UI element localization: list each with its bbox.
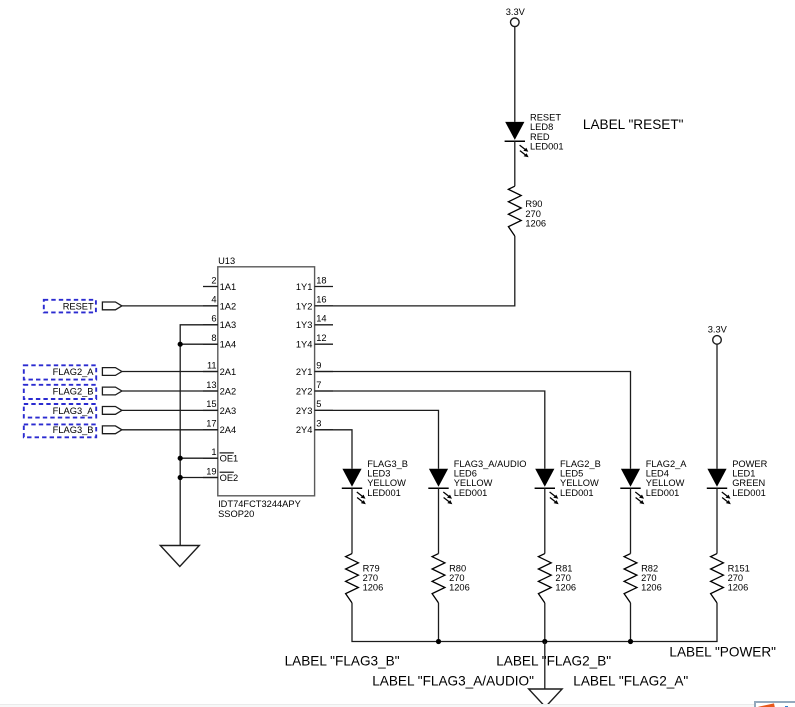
svg-text:270: 270 — [555, 573, 571, 583]
wire — [315, 236, 515, 306]
svg-text:LABEL "RESET": LABEL "RESET" — [583, 117, 684, 132]
svg-text:13: 13 — [206, 380, 216, 390]
wire — [180, 343, 218, 345]
svg-text:R82: R82 — [641, 563, 658, 573]
svg-text:LABEL "FLAG3_B": LABEL "FLAG3_B" — [285, 654, 400, 669]
svg-text:LED001: LED001 — [454, 488, 488, 498]
svg-text:2A4: 2A4 — [220, 425, 237, 435]
wire net 1A3/1A4/OE1/OE2 to ground — [180, 325, 218, 546]
U13 pin 16 (1Y2) — [296, 295, 333, 312]
svg-text:1206: 1206 — [555, 583, 576, 593]
svg-text:FLAG3_A: FLAG3_A — [53, 406, 95, 416]
svg-text:1A1: 1A1 — [220, 282, 237, 292]
junction at 1A4 — [178, 342, 183, 347]
svg-text:11: 11 — [207, 360, 217, 370]
svg-text:270: 270 — [728, 573, 744, 583]
resistor R82 — [624, 554, 637, 603]
svg-text:R79: R79 — [363, 563, 380, 573]
U13 pin 6 (1A3) — [203, 314, 236, 331]
wire — [544, 488, 546, 553]
wire to ground — [544, 642, 546, 690]
svg-text:1206: 1206 — [728, 583, 749, 593]
svg-text:R90: R90 — [525, 199, 542, 209]
svg-text:YELLOW: YELLOW — [646, 478, 685, 488]
svg-text:1206: 1206 — [641, 583, 662, 593]
svg-text:R151: R151 — [728, 563, 750, 573]
svg-text:4: 4 — [211, 295, 216, 305]
wire — [630, 488, 632, 553]
value label R81 value 270 1206 — [555, 563, 576, 592]
svg-text:2: 2 — [211, 275, 216, 285]
svg-text:LED001: LED001 — [530, 141, 564, 151]
svg-text:14: 14 — [316, 314, 326, 324]
value label R151 value 270 1206 — [728, 563, 750, 592]
svg-text:U13: U13 — [218, 256, 235, 266]
svg-text:1Y2: 1Y2 — [296, 301, 313, 311]
svg-text:19: 19 — [206, 466, 216, 476]
junction bus at R81 — [542, 639, 547, 644]
svg-text:RED: RED — [530, 132, 550, 142]
svg-text:R81: R81 — [555, 563, 572, 573]
value label LED5 designator — [560, 459, 601, 498]
LED LED8 (RESET, RED) — [505, 122, 529, 157]
power 3.3V P2 3.3V — [708, 325, 728, 345]
svg-text:LED8: LED8 — [530, 122, 553, 132]
U13 pin 15 (2A3) — [203, 399, 236, 416]
wire — [315, 372, 631, 469]
svg-text:LABEL "POWER": LABEL "POWER" — [669, 645, 776, 660]
svg-text:RESET: RESET — [530, 113, 561, 123]
U13 pin 19 (OE2) — [203, 466, 238, 483]
svg-text:1A2: 1A2 — [220, 301, 237, 311]
value label LED3 designator — [367, 459, 408, 498]
resistor R151 — [711, 554, 724, 603]
svg-text:FLAG3_A/AUDIO: FLAG3_A/AUDIO — [454, 459, 527, 469]
wire — [315, 410, 439, 468]
U13 pin 4 (1A2) — [203, 295, 236, 312]
wire — [514, 141, 516, 186]
svg-text:6: 6 — [211, 314, 216, 324]
wire — [180, 457, 218, 459]
svg-text:IDT74FCT3244APY: IDT74FCT3244APY — [218, 499, 301, 509]
value label R79 value 270 1206 — [363, 563, 384, 592]
U13 pin 11 (2A1) — [203, 360, 236, 377]
wire — [544, 603, 546, 642]
svg-text:270: 270 — [525, 209, 541, 219]
svg-text:8: 8 — [211, 333, 216, 343]
svg-text:LED4: LED4 — [646, 469, 669, 479]
svg-text:17: 17 — [206, 419, 216, 429]
svg-text:FLAG2_A: FLAG2_A — [646, 459, 688, 469]
svg-text:1Y1: 1Y1 — [296, 282, 313, 292]
LED LED5 (FLAG2_B, YELLOW) — [535, 469, 559, 504]
U13 pin 7 (2Y2) — [296, 380, 333, 397]
wire — [315, 430, 352, 469]
value label LED6 designator — [454, 459, 527, 498]
U13 pin 1 (OE1) — [203, 447, 238, 464]
value label LED1 designator — [732, 459, 767, 498]
svg-text:POWER: POWER — [732, 459, 767, 469]
wire — [514, 27, 516, 122]
wire — [351, 488, 353, 553]
svg-text:R80: R80 — [449, 563, 466, 573]
U13 pin 5 (2Y3) — [296, 399, 333, 416]
svg-text:5: 5 — [316, 399, 321, 409]
wire — [180, 477, 218, 479]
svg-text:3.3V: 3.3V — [708, 325, 728, 335]
svg-text:2Y2: 2Y2 — [296, 386, 313, 396]
value label R82 value 270 1206 — [641, 563, 662, 592]
svg-text:1Y4: 1Y4 — [296, 340, 313, 350]
U13 pin 13 (2A2) — [203, 380, 236, 397]
svg-text:FLAG3_B: FLAG3_B — [53, 425, 94, 435]
svg-text:270: 270 — [641, 573, 657, 583]
U13 pin 17 (2A4) — [203, 419, 236, 436]
wire ground bus — [352, 603, 717, 642]
value label LED4 designator — [646, 459, 688, 498]
resistor R81 — [538, 554, 551, 603]
value label R90 value 270 1206 — [525, 199, 546, 228]
wire — [315, 391, 545, 469]
wire — [716, 344, 718, 469]
port RESET — [44, 300, 122, 313]
svg-text:YELLOW: YELLOW — [560, 478, 599, 488]
svg-text:1Y3: 1Y3 — [296, 320, 313, 330]
svg-text:FLAG2_B: FLAG2_B — [53, 386, 94, 396]
LED LED4 (FLAG2_A, YELLOW) — [620, 469, 644, 504]
U13 pin 9 (2Y1) — [296, 360, 333, 377]
svg-text:OE2: OE2 — [220, 473, 239, 483]
svg-text:YELLOW: YELLOW — [454, 478, 493, 488]
svg-text:2A2: 2A2 — [220, 386, 237, 396]
U13 pin 2 (1A1) — [203, 275, 236, 292]
svg-text:2A3: 2A3 — [220, 406, 237, 416]
svg-text:1A4: 1A4 — [220, 340, 237, 350]
svg-text:2A1: 2A1 — [220, 367, 237, 377]
svg-text:LED001: LED001 — [646, 488, 680, 498]
U13 pin 14 (1Y3) — [296, 314, 333, 331]
svg-text:9: 9 — [316, 360, 321, 370]
svg-text:SSOP20: SSOP20 — [218, 509, 254, 519]
svg-text:2Y3: 2Y3 — [296, 406, 313, 416]
svg-text:7: 7 — [316, 380, 321, 390]
svg-text:270: 270 — [363, 573, 379, 583]
svg-text:LED5: LED5 — [560, 469, 583, 479]
svg-text:GREEN: GREEN — [732, 478, 765, 488]
svg-text:16: 16 — [316, 295, 326, 305]
junction bus at R82 — [628, 639, 633, 644]
IC U13 IDT74FCT3244APY — [218, 256, 315, 519]
port FLAG2_A — [24, 365, 122, 379]
svg-text:OE1: OE1 — [220, 454, 239, 464]
svg-text:3: 3 — [316, 419, 321, 429]
svg-text:2Y1: 2Y1 — [296, 367, 313, 377]
svg-text:1: 1 — [211, 447, 216, 457]
svg-text:LED3: LED3 — [367, 469, 390, 479]
svg-text:LABEL "FLAG2_B": LABEL "FLAG2_B" — [496, 654, 611, 669]
resistor R79 — [346, 554, 359, 603]
LED LED1 (POWER, GREEN) — [707, 469, 731, 504]
junction at OE1 — [178, 456, 183, 461]
ground GND1 — [160, 546, 199, 567]
wire — [630, 603, 632, 642]
svg-text:FLAG2_B: FLAG2_B — [560, 459, 601, 469]
port FLAG2_B — [24, 385, 122, 399]
svg-text:1A3: 1A3 — [220, 320, 237, 330]
U13 pin 8 (1A4) — [203, 333, 236, 350]
power 3.3V P1 3.3V — [506, 7, 526, 27]
svg-text:FLAG2_A: FLAG2_A — [53, 367, 95, 377]
svg-text:270: 270 — [449, 573, 465, 583]
svg-text:1206: 1206 — [449, 583, 470, 593]
resistor R80 — [432, 554, 445, 603]
port FLAG3_B — [24, 424, 122, 437]
junction at OE2 — [178, 475, 183, 480]
LED LED6 (FLAG3_A/AUDIO, YELLOW) — [428, 469, 452, 504]
U13 pin 18 (1Y1) — [296, 275, 333, 292]
port FLAG3_A — [24, 404, 122, 418]
svg-text:LED6: LED6 — [454, 469, 477, 479]
svg-text:15: 15 — [206, 399, 216, 409]
junction bus at R80 — [436, 639, 441, 644]
wire — [122, 371, 218, 373]
U13 pin 12 (1Y4) — [296, 333, 333, 350]
svg-text:YELLOW: YELLOW — [367, 478, 406, 488]
wire — [122, 409, 218, 411]
svg-text:LABEL "FLAG3_A/AUDIO": LABEL "FLAG3_A/AUDIO" — [372, 674, 534, 689]
svg-text:FLAG3_B: FLAG3_B — [367, 459, 408, 469]
wire — [122, 429, 218, 431]
wire — [438, 603, 440, 642]
svg-text:2Y4: 2Y4 — [296, 425, 313, 435]
wire — [438, 488, 440, 553]
svg-text:1206: 1206 — [363, 583, 384, 593]
wire — [122, 305, 218, 307]
U13 pin 3 (2Y4) — [296, 419, 333, 436]
svg-text:12: 12 — [316, 333, 326, 343]
resistor R90 — [508, 186, 521, 236]
ground GND2 — [529, 689, 562, 707]
svg-text:RESET: RESET — [63, 301, 94, 311]
svg-text:LED001: LED001 — [367, 488, 401, 498]
value label LED8 designator — [530, 113, 564, 152]
LED LED3 (FLAG3_B, YELLOW) — [342, 469, 366, 504]
svg-text:LABEL "FLAG2_A": LABEL "FLAG2_A" — [573, 674, 688, 689]
wire — [716, 488, 718, 553]
svg-text:1206: 1206 — [525, 219, 546, 229]
svg-text:LED1: LED1 — [732, 469, 755, 479]
wire — [122, 390, 218, 392]
svg-text:3.3V: 3.3V — [506, 7, 526, 17]
svg-text:18: 18 — [316, 275, 326, 285]
value label R80 value 270 1206 — [449, 563, 470, 592]
svg-text:LED001: LED001 — [560, 488, 594, 498]
svg-text:LED001: LED001 — [732, 488, 766, 498]
